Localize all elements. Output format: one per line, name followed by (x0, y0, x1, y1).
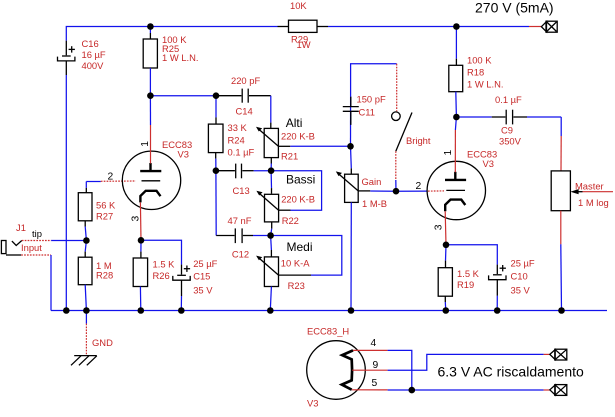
svg-text:Alti: Alti (286, 116, 303, 130)
node treble out (347, 143, 354, 150)
capacitor C11 (343, 97, 359, 147)
pin 2 V3a (108, 172, 114, 183)
wire stub to 270V connector (529, 26, 541, 28)
svg-text:4: 4 (371, 338, 377, 349)
node rail Master (558, 307, 565, 314)
svg-text:0.1 µF: 0.1 µF (495, 94, 522, 105)
svg-text:220 K-B: 220 K-B (281, 194, 315, 205)
svg-text:Bright: Bright (406, 135, 431, 146)
label R19 (457, 268, 480, 290)
label 6.3V (438, 364, 585, 380)
wire left column down (215, 171, 217, 236)
triode V3a (122, 151, 180, 209)
svg-text:10K: 10K (290, 0, 307, 11)
label C10 (511, 258, 535, 296)
wire top rail left (66, 27, 277, 41)
wire jack sleeve (21, 255, 51, 311)
label R27 (96, 199, 116, 221)
svg-text:Master: Master (575, 181, 604, 192)
potentiometer R22 Bassi (256, 171, 290, 236)
node cathode1 (138, 237, 145, 244)
svg-text:1 M log: 1 M log (578, 197, 609, 208)
node rail C10 (494, 307, 501, 314)
connector heater 45 (550, 385, 567, 396)
jack J1 (1, 241, 21, 256)
capacitor C16 (58, 41, 75, 75)
wire heater pin9 (352, 354, 550, 370)
svg-text:33 K: 33 K (228, 122, 248, 133)
label C11 (357, 94, 386, 118)
svg-text:Medi: Medi (287, 240, 313, 254)
label Master (575, 181, 609, 208)
pin 3 V3a (131, 216, 142, 222)
svg-text:J1: J1 (16, 222, 26, 233)
label V3h (307, 326, 349, 409)
wire bright top (351, 64, 397, 97)
node C12 right (267, 232, 274, 239)
svg-text:1 W L.N.: 1 W L.N. (467, 79, 503, 90)
resistor R29 (278, 20, 329, 32)
svg-text:35 V: 35 V (193, 284, 213, 295)
potentiometer R23 Medi (256, 236, 311, 311)
switch Bright (392, 64, 412, 191)
pin 3 V3b (433, 224, 444, 230)
resistor R24 (208, 96, 223, 171)
label R25 values (162, 34, 198, 63)
svg-text:1W: 1W (297, 39, 311, 50)
label C16 (82, 38, 106, 71)
node heater 45 (409, 387, 416, 394)
label Medi (281, 240, 313, 291)
svg-text:R18: R18 (467, 66, 484, 77)
node rail C15 (178, 307, 185, 314)
svg-text:16 µF: 16 µF (82, 49, 106, 60)
label V3b (467, 149, 497, 170)
svg-text:ECC83_H: ECC83_H (307, 326, 349, 337)
svg-text:2: 2 (416, 181, 422, 192)
svg-text:C11: C11 (359, 107, 376, 118)
wire cathode1 lead (139, 202, 142, 240)
ground GND (71, 311, 97, 366)
svg-text:1: 1 (443, 150, 454, 156)
wire heater pin4 (353, 350, 412, 390)
wire bottom rail (51, 310, 607, 312)
node grid2 (393, 188, 400, 195)
svg-text:1 W L.N.: 1 W L.N. (162, 52, 198, 63)
svg-text:3: 3 (131, 216, 142, 222)
svg-text:350V: 350V (499, 136, 522, 147)
potentiometer R21 Alti (256, 127, 290, 171)
wire top rail right (328, 26, 529, 28)
pin 1 V3b (443, 150, 454, 156)
node rail R23 (267, 307, 274, 314)
svg-text:C12: C12 (232, 248, 249, 259)
capacitor C14 (216, 89, 271, 103)
node rail left (63, 307, 70, 314)
svg-text:25 µF: 25 µF (193, 258, 217, 269)
svg-text:R24: R24 (228, 135, 245, 146)
wire anode1 lead (149, 96, 151, 164)
wire R21 wiper to node (290, 145, 350, 147)
connector 270V (541, 21, 557, 32)
label R18 (467, 54, 503, 89)
resistor R27 (78, 182, 92, 241)
pin 1 V3a (140, 141, 151, 147)
svg-text:Input: Input (21, 242, 42, 253)
svg-text:47 nF: 47 nF (228, 215, 252, 226)
node anode2 (453, 114, 460, 121)
svg-text:5: 5 (372, 378, 378, 389)
label C12 (228, 215, 252, 259)
wire jack tip (22, 240, 87, 242)
capacitor C12 (216, 228, 270, 243)
triode V3b (427, 161, 485, 219)
node rail Gain (348, 307, 355, 314)
wire grid2 lead (396, 190, 444, 192)
svg-text:R23: R23 (288, 280, 305, 291)
pin 4 (371, 338, 377, 349)
svg-text:C9: C9 (501, 124, 513, 135)
svg-text:1.5 K: 1.5 K (153, 259, 176, 270)
svg-text:220 pF: 220 pF (231, 75, 260, 86)
svg-text:25 µF: 25 µF (511, 258, 535, 269)
svg-text:56 K: 56 K (96, 199, 116, 210)
label C9 (495, 94, 522, 147)
node rail R26 (138, 307, 145, 314)
svg-text:9: 9 (373, 360, 379, 371)
svg-text:tip: tip (32, 228, 42, 239)
wire cathode2 lead (444, 211, 447, 245)
resistor R19 (438, 245, 452, 311)
label 270V (475, 0, 554, 16)
wire heater pin5 (352, 389, 550, 391)
svg-text:R28: R28 (96, 270, 113, 281)
label R28 (96, 260, 113, 281)
wire plate1 node row (150, 95, 216, 97)
svg-text:C16: C16 (82, 38, 99, 49)
node plate1 right (213, 92, 220, 99)
pin 2 V3b (416, 181, 422, 192)
svg-text:10 K-A: 10 K-A (281, 257, 310, 268)
svg-text:35 V: 35 V (511, 284, 531, 295)
svg-text:R21: R21 (281, 150, 298, 161)
node R21 R22 (268, 167, 275, 174)
node cathode2 (443, 242, 450, 249)
wire C14 to R21 (270, 96, 272, 129)
node top rail R25 (147, 23, 154, 30)
capacitor C13 (216, 164, 271, 179)
wire Bassi loop (271, 171, 322, 211)
label Alti (281, 116, 315, 161)
node rail R19 (443, 307, 450, 314)
svg-text:V3: V3 (178, 149, 189, 160)
svg-text:C10: C10 (511, 271, 528, 282)
label Bright (406, 135, 431, 146)
resistor R25 (143, 27, 157, 96)
svg-text:C15: C15 (193, 271, 210, 282)
pin 9 (373, 360, 379, 371)
svg-text:V3: V3 (483, 158, 494, 169)
label J1 (16, 222, 42, 253)
svg-text:Gain: Gain (362, 176, 382, 187)
svg-text:100 K: 100 K (467, 54, 492, 65)
svg-text:R19: R19 (457, 279, 474, 290)
node top rail R18 (453, 23, 460, 30)
label C15 (193, 258, 217, 295)
svg-text:3: 3 (433, 224, 444, 230)
label R29 values (290, 0, 311, 50)
svg-text:150 pF: 150 pF (357, 94, 386, 105)
connector heater 9 (550, 349, 567, 360)
label R24 values (228, 122, 248, 146)
svg-text:400V: 400V (82, 60, 105, 71)
wire left rail (65, 75, 67, 311)
potentiometer Master (551, 117, 613, 311)
svg-text:1: 1 (140, 141, 151, 147)
svg-text:6.3 V AC riscaldamento: 6.3 V AC riscaldamento (438, 364, 585, 380)
svg-text:1 M-B: 1 M-B (362, 198, 387, 209)
capacitor C10 (446, 245, 506, 311)
svg-text:C13: C13 (233, 185, 250, 196)
svg-text:C14: C14 (236, 106, 253, 117)
svg-text:R22: R22 (282, 215, 299, 226)
svg-text:270 V (5mA): 270 V (5mA) (475, 0, 554, 16)
resistor R26 (133, 240, 147, 310)
node rail gnd (83, 307, 90, 314)
capacitor C15 (141, 240, 190, 310)
wire Medi loop (271, 236, 342, 276)
label GND (92, 337, 113, 348)
svg-text:GND: GND (92, 337, 113, 348)
label Bassi (281, 173, 315, 226)
wire grid1 row (86, 180, 135, 183)
svg-text:V3: V3 (307, 398, 318, 409)
svg-text:Bassi: Bassi (286, 173, 315, 187)
resistor R28 (78, 241, 92, 311)
wire anode2 lead (455, 117, 456, 172)
potentiometer Gain (336, 146, 396, 310)
node tip R27 (83, 237, 90, 244)
resistor R18 (449, 27, 463, 118)
label C14 (231, 75, 260, 117)
capacitor C9 (456, 110, 561, 125)
svg-text:2: 2 (108, 172, 114, 183)
svg-text:1.5 K: 1.5 K (457, 268, 480, 279)
label C13 (228, 146, 255, 196)
svg-text:220 K-B: 220 K-B (281, 130, 315, 141)
node C13 left (213, 167, 220, 174)
heater tube V3h (307, 341, 366, 400)
svg-text:R26: R26 (153, 270, 170, 281)
svg-text:R27: R27 (96, 210, 113, 221)
node plate1 left (147, 92, 154, 99)
svg-text:0.1 µF: 0.1 µF (228, 146, 255, 157)
label R26 (153, 259, 176, 282)
label Gain (362, 176, 388, 209)
label V3a (162, 139, 192, 160)
pin 5 (372, 378, 378, 389)
